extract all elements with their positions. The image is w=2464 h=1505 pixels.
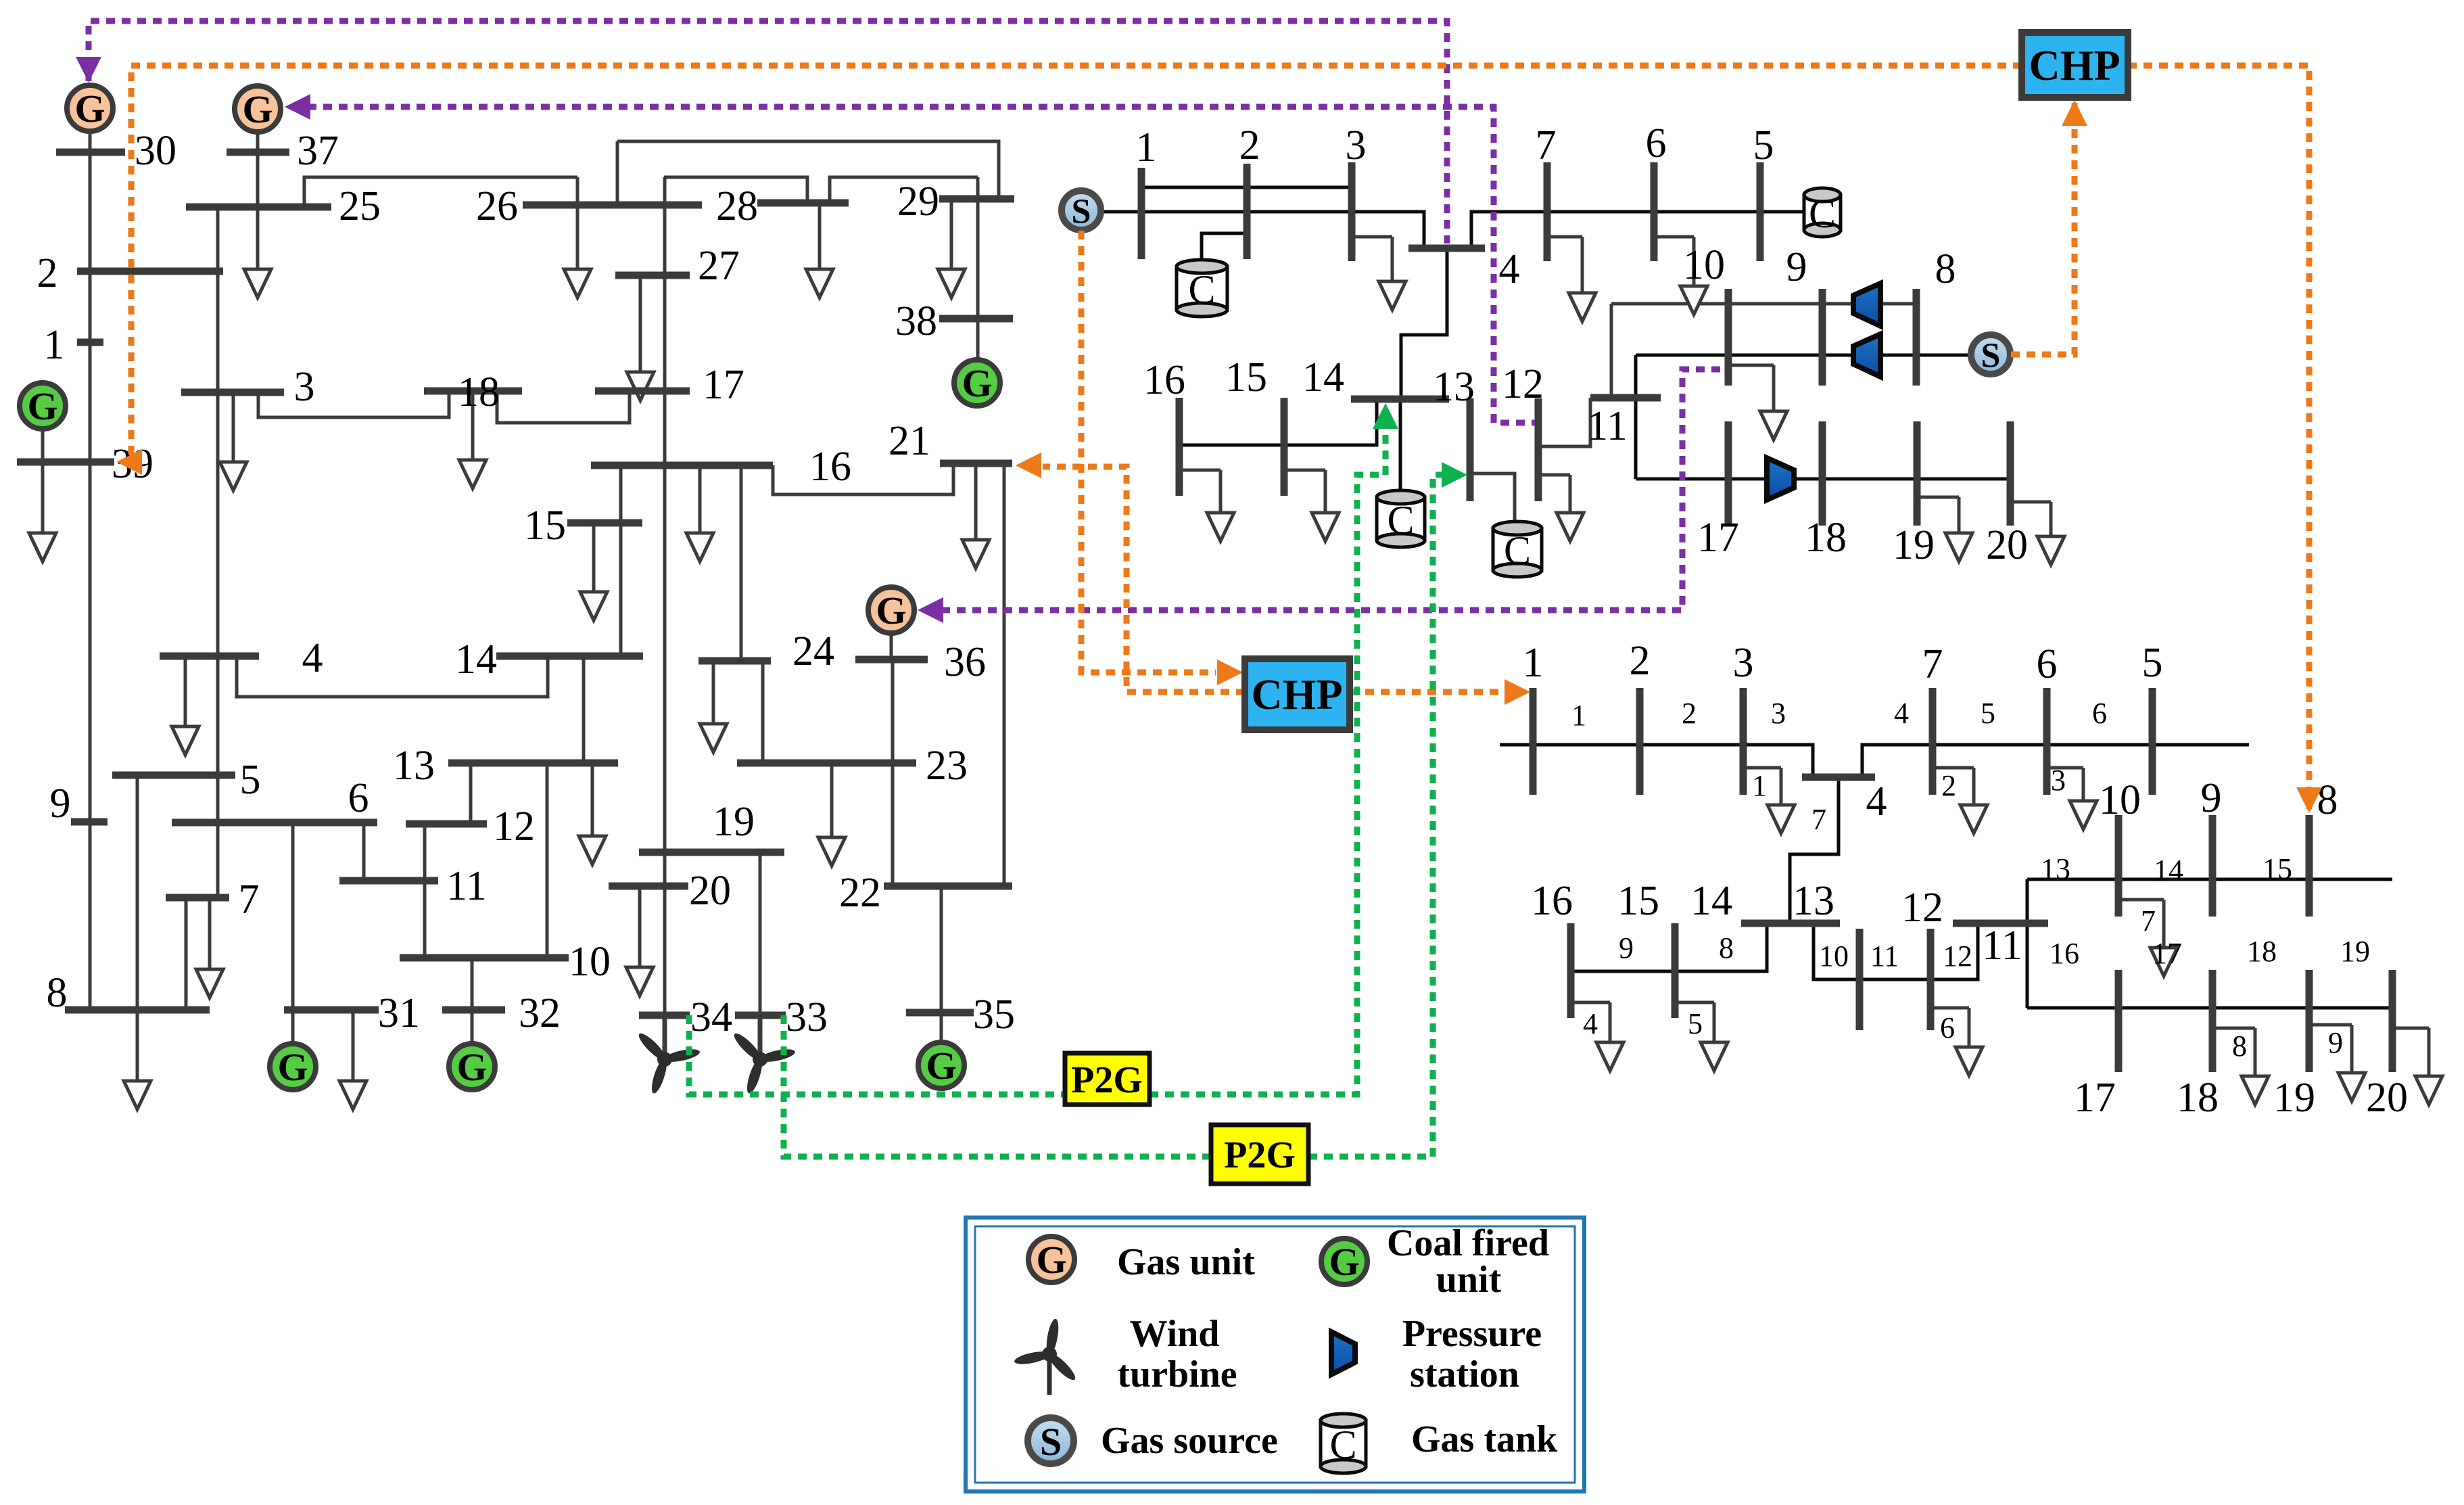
svg-text:S: S [1981, 337, 2001, 375]
svg-text:10: 10 [1819, 940, 1849, 973]
svg-text:unit: unit [1436, 1259, 1502, 1301]
svg-text:7: 7 [1922, 641, 1943, 687]
svg-text:C: C [1329, 1422, 1356, 1467]
svg-text:31: 31 [378, 990, 420, 1036]
svg-text:23: 23 [926, 743, 968, 789]
svg-text:11: 11 [1870, 940, 1899, 973]
svg-text:19: 19 [2273, 1075, 2315, 1121]
svg-text:7: 7 [1811, 803, 1826, 836]
svg-text:11: 11 [1587, 403, 1628, 449]
svg-text:3: 3 [294, 364, 315, 410]
svg-text:station: station [1410, 1353, 1519, 1395]
svg-text:18: 18 [2247, 935, 2277, 968]
svg-text:12: 12 [1901, 885, 1943, 931]
svg-text:37: 37 [297, 128, 339, 174]
svg-text:3: 3 [1346, 122, 1367, 168]
svg-text:27: 27 [698, 243, 740, 289]
svg-text:G: G [74, 87, 105, 131]
svg-text:G: G [926, 1044, 956, 1088]
svg-text:13: 13 [1433, 364, 1475, 410]
svg-text:4: 4 [302, 635, 323, 681]
svg-text:Wind: Wind [1130, 1313, 1220, 1355]
svg-text:7: 7 [1536, 122, 1557, 168]
svg-text:13: 13 [393, 743, 435, 789]
svg-text:G: G [876, 588, 906, 632]
svg-text:18: 18 [2177, 1075, 2219, 1121]
svg-text:5: 5 [1753, 122, 1774, 168]
svg-text:11: 11 [1982, 923, 2022, 969]
svg-text:1: 1 [1752, 769, 1767, 802]
svg-text:Gas unit: Gas unit [1117, 1241, 1255, 1283]
svg-text:S: S [1040, 1420, 1062, 1464]
svg-text:Coal fired: Coal fired [1387, 1222, 1549, 1264]
svg-text:14: 14 [2154, 854, 2183, 887]
svg-text:18: 18 [458, 369, 500, 415]
svg-text:16: 16 [809, 444, 851, 490]
svg-text:2: 2 [37, 250, 58, 296]
svg-text:3: 3 [1733, 640, 1754, 686]
svg-text:19: 19 [2340, 935, 2370, 968]
svg-text:16: 16 [1531, 878, 1573, 924]
svg-text:9: 9 [2328, 1026, 2343, 1059]
svg-text:20: 20 [689, 868, 731, 914]
svg-text:35: 35 [973, 992, 1015, 1038]
svg-text:4: 4 [1583, 1007, 1598, 1040]
svg-text:38: 38 [895, 298, 937, 344]
svg-text:turbine: turbine [1117, 1353, 1237, 1395]
svg-text:G: G [242, 87, 273, 131]
svg-text:6: 6 [348, 775, 369, 821]
svg-text:14: 14 [1690, 878, 1732, 924]
svg-text:10: 10 [569, 939, 611, 985]
svg-text:C: C [1809, 191, 1836, 236]
svg-text:8: 8 [2317, 777, 2338, 823]
svg-text:34: 34 [690, 994, 732, 1040]
svg-text:17: 17 [2074, 1075, 2116, 1121]
svg-text:8: 8 [1719, 931, 1734, 965]
svg-text:C: C [1387, 498, 1414, 542]
svg-text:G: G [27, 384, 57, 428]
svg-text:15: 15 [1617, 878, 1659, 924]
svg-text:10: 10 [2099, 777, 2141, 823]
svg-text:10: 10 [1683, 242, 1725, 288]
svg-text:12: 12 [1502, 361, 1544, 407]
svg-text:2: 2 [1239, 122, 1260, 168]
svg-text:29: 29 [897, 179, 939, 225]
svg-text:4: 4 [1866, 779, 1887, 825]
svg-text:28: 28 [716, 183, 758, 229]
svg-text:11: 11 [446, 863, 487, 909]
svg-text:5: 5 [240, 757, 261, 803]
svg-text:Pressure: Pressure [1402, 1313, 1542, 1355]
svg-text:5: 5 [1981, 697, 1995, 730]
svg-text:22: 22 [839, 870, 881, 916]
svg-text:21: 21 [889, 418, 930, 464]
svg-text:G: G [277, 1045, 308, 1089]
svg-text:1: 1 [44, 322, 65, 368]
svg-text:6: 6 [1940, 1011, 1955, 1044]
svg-text:9: 9 [1786, 244, 1807, 290]
svg-text:19: 19 [1893, 522, 1935, 568]
svg-text:C: C [1504, 528, 1531, 573]
svg-text:G: G [1036, 1238, 1066, 1282]
svg-text:32: 32 [519, 990, 561, 1036]
svg-text:12: 12 [493, 804, 535, 850]
svg-text:15: 15 [524, 503, 566, 549]
svg-text:3: 3 [2051, 764, 2066, 797]
svg-text:9: 9 [50, 781, 71, 827]
svg-text:36: 36 [944, 639, 986, 685]
svg-text:13: 13 [2041, 852, 2070, 885]
svg-text:G: G [456, 1045, 487, 1089]
svg-text:1: 1 [1523, 640, 1544, 686]
svg-text:4: 4 [1499, 246, 1520, 292]
svg-text:CHP: CHP [1251, 670, 1342, 718]
svg-text:8: 8 [2232, 1029, 2247, 1063]
svg-text:9: 9 [2201, 775, 2222, 821]
svg-text:7: 7 [239, 877, 260, 923]
svg-text:C: C [1188, 267, 1215, 312]
svg-text:24: 24 [792, 628, 834, 674]
svg-text:P2G: P2G [1224, 1134, 1296, 1176]
svg-text:20: 20 [1986, 522, 2028, 568]
svg-text:5: 5 [2142, 640, 2163, 686]
svg-text:8: 8 [1935, 246, 1956, 292]
svg-text:5: 5 [1688, 1007, 1703, 1040]
svg-text:3: 3 [1771, 697, 1786, 730]
svg-text:15: 15 [1225, 354, 1267, 400]
svg-text:G: G [1329, 1240, 1359, 1284]
svg-text:14: 14 [455, 636, 497, 682]
svg-text:8: 8 [47, 970, 68, 1016]
svg-text:25: 25 [339, 183, 381, 229]
svg-text:1: 1 [1136, 124, 1157, 170]
svg-text:17: 17 [2152, 937, 2182, 970]
svg-text:4: 4 [1894, 697, 1909, 730]
svg-text:16: 16 [1143, 357, 1185, 403]
svg-text:18: 18 [1805, 515, 1847, 561]
svg-text:2: 2 [1630, 638, 1651, 684]
svg-text:16: 16 [2050, 937, 2079, 970]
svg-text:26: 26 [476, 183, 518, 229]
svg-text:7: 7 [2141, 904, 2156, 937]
svg-text:6: 6 [1646, 120, 1667, 166]
svg-text:13: 13 [1793, 878, 1834, 924]
svg-text:20: 20 [2366, 1075, 2408, 1121]
svg-text:14: 14 [1302, 354, 1344, 400]
svg-text:30: 30 [135, 128, 176, 174]
svg-text:9: 9 [1619, 931, 1634, 965]
svg-text:17: 17 [703, 362, 744, 408]
svg-text:CHP: CHP [2029, 41, 2120, 89]
svg-text:15: 15 [2262, 852, 2292, 885]
svg-text:Gas source: Gas source [1101, 1420, 1278, 1462]
svg-text:12: 12 [1943, 940, 1972, 973]
svg-text:6: 6 [2037, 641, 2058, 687]
svg-text:P2G: P2G [1071, 1059, 1143, 1101]
svg-text:33: 33 [786, 994, 828, 1040]
svg-text:S: S [1072, 193, 1091, 231]
svg-text:6: 6 [2092, 697, 2107, 730]
svg-text:1: 1 [1571, 699, 1586, 732]
svg-text:2: 2 [1941, 769, 1956, 802]
svg-text:19: 19 [713, 799, 755, 845]
svg-text:Gas tank: Gas tank [1411, 1418, 1558, 1460]
svg-text:G: G [962, 361, 992, 405]
svg-text:17: 17 [1697, 515, 1739, 561]
svg-text:2: 2 [1682, 697, 1697, 730]
